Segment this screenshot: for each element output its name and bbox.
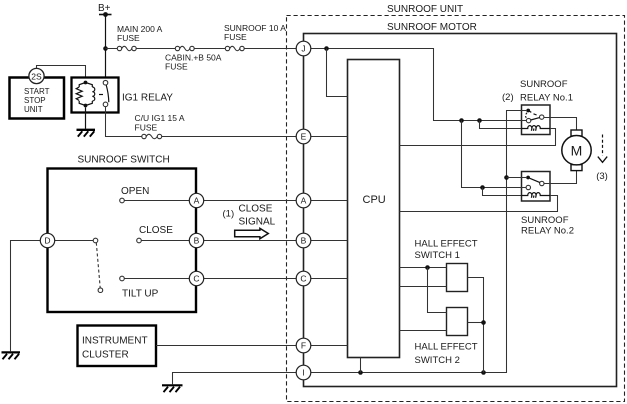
svg-text:RELAY No.2: RELAY No.2 <box>521 226 574 237</box>
svg-text:C: C <box>300 274 306 284</box>
pin A <box>296 193 311 208</box>
pin A switch edge <box>189 193 203 207</box>
wire CPU to pin B <box>311 240 348 242</box>
wire CPU to hall1 top <box>400 267 447 269</box>
ground below IG1 relay <box>77 130 96 137</box>
fuse MAIN 200 A <box>117 24 163 53</box>
relay2 NC feed inside <box>520 177 526 179</box>
svg-text:FUSE: FUSE <box>117 33 140 43</box>
pin B switch edge <box>189 233 203 247</box>
junction hall2 on hall bus <box>481 320 486 325</box>
junction hall feed <box>425 265 430 270</box>
node B+ <box>98 3 112 17</box>
contact open <box>120 198 125 203</box>
pin B <box>296 233 311 248</box>
svg-text:UNIT: UNIT <box>24 105 43 114</box>
svg-text:B: B <box>301 236 307 246</box>
svg-text:INSTRUMENT: INSTRUMENT <box>82 336 148 347</box>
svg-text:F: F <box>301 341 306 351</box>
wire CPU to hall2 bottom <box>400 330 447 332</box>
svg-text:(1): (1) <box>223 209 235 220</box>
wire open contact to pin A <box>124 200 296 202</box>
junction B+/main <box>103 46 108 51</box>
sunroof switch box <box>48 155 197 313</box>
junction CPU ground stub <box>358 370 363 375</box>
svg-text:SUNROOF: SUNROOF <box>520 79 568 90</box>
svg-text:CPU: CPU <box>363 194 386 206</box>
wire CPU to pin F <box>311 345 348 347</box>
pin F <box>296 338 311 353</box>
svg-text:(2): (2) <box>502 92 514 103</box>
wire 2S to IG1 relay coil <box>37 66 86 83</box>
connector 2S <box>29 68 44 83</box>
switch arm dashed <box>96 243 100 288</box>
junction relay1 NO feed <box>459 118 464 123</box>
wire relay2 NC feed <box>507 177 527 179</box>
pin C switch edge <box>189 271 203 285</box>
relay1 NC feed inside <box>520 110 526 112</box>
relay1 dashed alternate <box>530 111 537 115</box>
CPU U1 <box>348 60 400 358</box>
relay2 coil L2 <box>522 193 551 196</box>
wire J branch to CPU <box>327 49 348 97</box>
relay1 common contact <box>540 115 544 119</box>
svg-text:I: I <box>302 368 304 378</box>
svg-text:A: A <box>194 196 200 206</box>
relay1 NO feed inside <box>520 120 526 122</box>
svg-text:(3): (3) <box>596 171 608 182</box>
sunroof unit dashed enclosure <box>287 4 625 402</box>
pin D switch edge <box>40 233 54 247</box>
svg-text:SWITCH 1: SWITCH 1 <box>415 250 460 261</box>
wire hall2 output <box>468 322 484 324</box>
wire hall1 output <box>468 278 484 373</box>
svg-text:CLOSE: CLOSE <box>139 225 173 236</box>
sunroof relay No.1 box <box>502 79 573 135</box>
fuse CABIN.+B 50A <box>165 44 222 72</box>
wire ground bus from pin I <box>311 111 527 373</box>
wire relay1 coil to CPU <box>400 129 556 146</box>
wire relay2 coil to CPU <box>400 196 558 212</box>
svg-text:HALL EFFECT: HALL EFFECT <box>415 239 478 250</box>
svg-text:SUNROOF SWITCH: SUNROOF SWITCH <box>78 155 170 166</box>
sunroof relay No.2 box <box>521 172 574 237</box>
svg-text:M: M <box>571 142 583 158</box>
hall effect switch 1 <box>415 239 478 292</box>
junction relay2 coil feed <box>480 185 485 190</box>
relay1 NO contact <box>526 118 530 122</box>
wire branch to relay2 NO <box>462 121 527 188</box>
relay2 NO feed inside <box>520 187 526 189</box>
svg-text:SUNROOF: SUNROOF <box>521 215 569 226</box>
svg-text:CLUSTER: CLUSTER <box>82 350 129 361</box>
wire D to close pivot <box>54 240 93 242</box>
pin E <box>296 129 311 144</box>
junction relay1 coil feed <box>477 118 482 123</box>
svg-text:IG1 RELAY: IG1 RELAY <box>122 93 173 104</box>
IG1 relay U2 <box>72 78 119 113</box>
wire relay1 coil feed <box>480 121 529 129</box>
svg-text:CLOSE: CLOSE <box>239 204 273 215</box>
svg-text:C: C <box>193 274 199 284</box>
ground for pin I <box>162 385 183 392</box>
svg-text:START: START <box>24 87 50 96</box>
wire CPU to pin A <box>311 200 348 202</box>
wire D to ground <box>11 241 41 352</box>
relay2 NO contact <box>526 185 530 189</box>
ground lower left <box>2 352 21 359</box>
wire instrument cluster to pin F <box>156 345 296 347</box>
wire relay1 common to motor <box>544 118 577 131</box>
svg-text:HALL EFFECT: HALL EFFECT <box>415 342 478 353</box>
relay1 coil L1 <box>522 126 551 129</box>
svg-text:SWITCH 2: SWITCH 2 <box>415 355 460 366</box>
fuse C/U IG1 15 A <box>135 113 185 141</box>
svg-text:FUSE: FUSE <box>165 62 188 72</box>
wire CPU to hall1 bottom <box>400 286 447 288</box>
relay1 NC contact <box>526 109 530 113</box>
junction hall bus on ground bus <box>481 370 486 375</box>
sunroof motor enclosure <box>304 22 617 387</box>
svg-text:J: J <box>301 44 305 54</box>
wire main B+ feed <box>106 48 297 50</box>
pin I <box>296 365 311 380</box>
relay2 arm <box>530 178 540 182</box>
svg-text:C/U IG1 15 A: C/U IG1 15 A <box>135 113 185 123</box>
svg-text:E: E <box>301 132 307 142</box>
svg-text:OPEN: OPEN <box>121 186 149 197</box>
wire relay2 coil feed <box>483 188 529 196</box>
svg-text:SUNROOF UNIT: SUNROOF UNIT <box>387 4 463 15</box>
wire J to relay feed <box>311 49 527 121</box>
wire tilt contact to pin C <box>124 278 296 280</box>
junction relay2 NC feed <box>504 175 509 180</box>
close signal annotation (1) <box>223 204 276 239</box>
relay1 arm <box>531 118 540 120</box>
start stop unit box <box>10 78 65 119</box>
svg-text:D: D <box>44 236 50 246</box>
wire IG1 switch output <box>106 107 297 137</box>
instrument cluster box <box>78 326 157 367</box>
wire CPU to pin E <box>311 136 348 138</box>
wire close contact to pin B <box>141 240 296 242</box>
svg-text:SUNROOF MOTOR: SUNROOF MOTOR <box>387 22 477 33</box>
svg-text:B+: B+ <box>98 3 111 14</box>
pin J <box>296 41 311 56</box>
contact tilt up <box>120 276 125 281</box>
svg-text:2S: 2S <box>31 71 42 81</box>
hall effect switch 2 <box>415 308 478 367</box>
annotation (3) motion arrow <box>596 135 608 183</box>
svg-text:FUSE: FUSE <box>224 32 247 42</box>
wire hall branch to hall2 <box>428 268 447 313</box>
wire IG1 coil to ground <box>85 107 87 128</box>
IG1 relay coil network <box>76 81 103 108</box>
junction on J wire <box>324 46 329 51</box>
wire CPU to pin C <box>311 278 348 280</box>
wire B+ vertical drop <box>105 15 107 81</box>
svg-text:TILT UP: TILT UP <box>122 289 159 300</box>
wire ground to pin I <box>173 373 297 385</box>
relay2 common contact <box>540 181 544 185</box>
svg-text:STOP: STOP <box>24 96 46 105</box>
wire relay2 common to motor <box>544 171 577 184</box>
fuse SUNROOF 10 A <box>224 23 286 53</box>
svg-text:RELAY No.1: RELAY No.1 <box>520 93 573 104</box>
motor M1 <box>562 130 591 171</box>
svg-text:B: B <box>194 236 200 246</box>
wire CPU ground stub <box>360 358 362 373</box>
svg-text:SIGNAL: SIGNAL <box>239 217 276 228</box>
svg-text:FUSE: FUSE <box>135 123 158 133</box>
contact close pivot <box>93 238 98 243</box>
pin C <box>296 271 311 286</box>
contact close <box>137 238 142 243</box>
relay2 NC contact <box>526 176 530 180</box>
svg-text:A: A <box>301 196 307 206</box>
IG1 relay switch <box>103 80 109 106</box>
